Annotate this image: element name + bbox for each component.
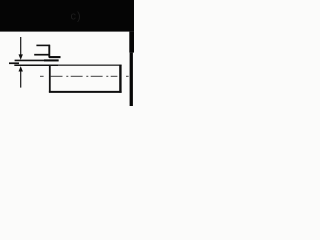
- top black scan bar: [0, 0, 134, 32]
- dimension arrow up: [19, 66, 23, 71]
- seam segment right (thick): [49, 56, 61, 58]
- right black scan column (narrow lower part): [130, 53, 133, 106]
- centerline dot 3: [106, 75, 108, 77]
- seam segment left: [34, 54, 49, 56]
- thin sheet top surface (line A): [15, 59, 59, 61]
- plate bottom edge: [49, 91, 122, 93]
- plate top surface (line B): [14, 64, 121, 66]
- dimension value dash at left: [9, 62, 19, 64]
- centerline short dash left end: [40, 75, 44, 77]
- right black scan column (wide upper part): [129, 32, 134, 53]
- plate left edge: [49, 65, 51, 93]
- centerline dash 3: [91, 75, 103, 77]
- dimension arrow down: [19, 54, 23, 60]
- centerline dash 1: [51, 75, 63, 77]
- leader vertical: [48, 45, 50, 58]
- paper background: [0, 0, 134, 106]
- dimension line upper tail: [20, 37, 22, 55]
- plate right edge: [119, 65, 121, 93]
- plate top surface darker left part: [14, 64, 58, 66]
- centerline end mark beyond plate edge: [126, 75, 129, 77]
- thin sheet top surface bold right part: [44, 59, 59, 61]
- centerline dot 1: [66, 75, 68, 77]
- centerline dot 2: [86, 75, 88, 77]
- leader shelf: [36, 44, 50, 46]
- centerline dash 4: [111, 75, 118, 77]
- svg-text:c): c): [71, 11, 82, 23]
- centerline dash 2: [71, 75, 83, 77]
- dimension line lower tail: [20, 71, 22, 88]
